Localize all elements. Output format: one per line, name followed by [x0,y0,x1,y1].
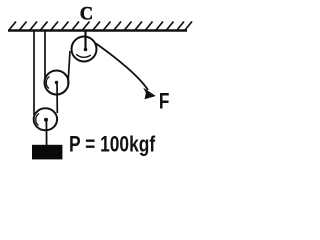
weight block [32,145,62,160]
pulley C inner groove arc [76,54,91,57]
hanger of pulley C [84,31,86,50]
ceiling [8,29,187,31]
rope B left segment (ceiling to upper pulley) [44,31,46,80]
arrowhead of F [143,88,156,100]
rope B right segment (upper pulley to pulley C) [68,51,70,84]
pulley C axle dot [84,48,88,52]
svg-text:C: C [80,4,93,24]
ceiling hatching [9,22,192,31]
lower pulley axle dot [44,118,48,122]
svg-text:P = 100kgf: P = 100kgf [69,133,155,157]
rope from lower pulley to upper pulley axle [56,83,58,113]
hook from lower pulley to weight [45,120,47,146]
lower pulley inner groove arc [36,114,39,126]
upper pulley inner groove arc [46,77,49,89]
force rope curve to F [96,44,148,91]
lower movable pulley wheel [34,108,57,130]
upper movable pulley wheel [45,71,69,95]
svg-text:F: F [159,89,169,114]
rope A left segment (ceiling to lower pulley) [33,31,35,115]
pulley C wheel [72,37,97,62]
upper pulley axle dot [55,81,58,84]
